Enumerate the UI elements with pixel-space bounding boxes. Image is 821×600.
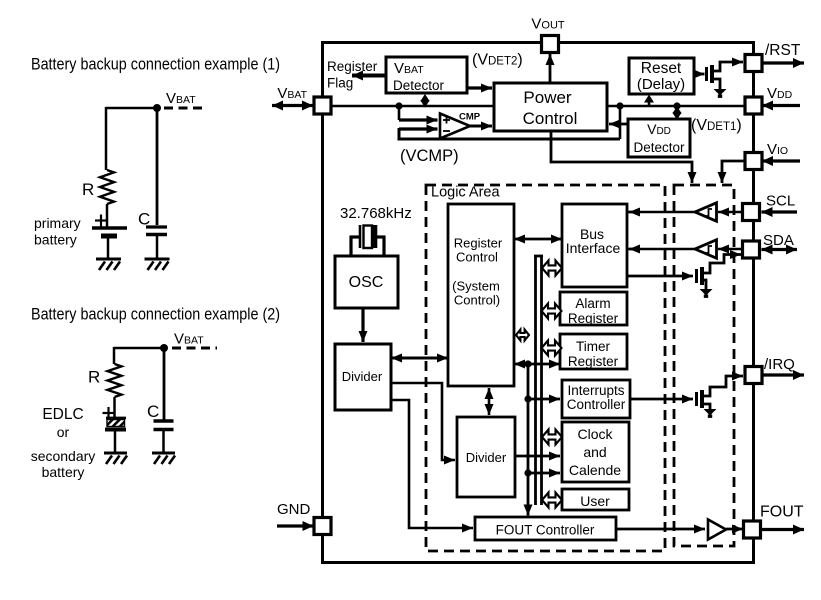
arrow RST external [762,61,804,64]
pin GND [314,518,331,535]
svg-text:Battery backup connection exam: Battery backup connection example (1) [31,55,280,74]
ground IRQ transistor [704,409,717,416]
battery negative plate example1 [101,234,117,239]
svg-text:or: or [57,424,70,440]
pin VIO [745,153,762,170]
svg-text:Detector: Detector [393,78,445,93]
wire to capacitor C example1 [156,108,159,225]
svg-text:SDA: SDA [763,232,794,249]
bus arrow to Alarm Register [542,304,562,319]
pin SDA [743,241,760,258]
svg-text:Detector: Detector [633,140,685,155]
bus arrow to Clock [542,430,562,445]
svg-text:R: R [82,180,94,199]
wire Divider 2 to Clock [515,455,560,458]
buffer SDA [695,240,717,258]
svg-text:Register: Register [568,311,619,326]
wire Register Control to Bus Interface double arrow [514,238,562,241]
wire VDD rail to VDD Detector double arrow [676,111,678,115]
arrow VBAT Detector to Register Flag [352,74,386,78]
wire Interrupts Controller to IRQ transistor [630,398,668,401]
ground battery example1 [96,259,121,270]
SDA input arrowhead into Bus Interface [629,248,640,251]
svg-text:Logic Area: Logic Area [431,185,500,201]
wire bus to Interrupts Controller [528,398,560,401]
svg-text:Calende: Calende [569,462,621,478]
wire Power Control internal supply to IO area [551,131,692,183]
bus line right [540,255,543,505]
bus line left [534,255,537,505]
svg-text:User: User [580,493,610,509]
block VBAT Detector [386,57,467,93]
wire SCL pin to buffer [718,211,743,214]
block Interrupts Controller [562,380,630,418]
junction VBAT rail [395,102,402,109]
block Alarm Register [560,292,627,325]
EDLC hatched plate example2 [106,417,126,420]
svg-text:Controller: Controller [567,397,626,412]
wire Bus Interface to SDA transistor gate [627,275,693,278]
block OSC [335,256,398,308]
wire Register Control to Timer Register double arrow [514,363,560,366]
junction VDD rail at detector [673,102,680,109]
svg-text:32.768kHz: 32.768kHz [340,205,412,222]
node VBAT example1 [153,104,161,112]
wire VBAT Detector to rail double arrow [424,99,426,103]
crystal X1 [350,225,386,257]
block Power Control [494,83,607,131]
svg-text:Control: Control [456,250,498,265]
wire OSC to Divider [361,308,364,342]
svg-text:Control): Control) [454,293,500,308]
svg-text:GND: GND [277,501,311,518]
wire SCL to Bus Interface [627,211,695,214]
svg-text:C: C [147,402,159,421]
wire transistor source to ground [712,79,720,89]
svg-text:/RST: /RST [765,42,801,59]
transistor RST output [707,65,713,83]
wire resistor to EDLC example2 [113,397,116,419]
svg-text:R: R [88,368,100,387]
bus arrow to User [542,493,562,508]
svg-text:CMP: CMP [459,112,481,123]
arrow VDD external [762,104,800,107]
resistor R example1 [100,170,114,204]
block Divider 1 [335,344,391,410]
wire VDD Detector to Power Control [609,123,628,126]
svg-text:and: and [583,444,606,460]
wire resistor to battery example1 [106,204,109,227]
wire SDA transistor source [702,280,706,289]
block Divider 2 [457,417,515,497]
pin VDD [745,97,762,114]
capacitor C bottom plate example1 [146,233,167,237]
arrow GND external [277,524,314,527]
svg-text:OSC: OSC [349,274,384,291]
junction control bus top [524,360,531,367]
svg-text:Alarm: Alarm [575,296,610,311]
svg-text:battery: battery [42,464,85,480]
wire bus to Clock lower [528,472,560,475]
wire Reset to transistor gate [694,73,705,76]
wire battery to ground example1 [107,237,110,259]
bus arrow Register Control small [516,330,529,341]
chip outline [323,43,754,563]
Logic Area label [430,187,503,198]
capacitor C bottom plate example2 [154,428,174,432]
svg-text:/IRQ: /IRQ [764,356,795,373]
capacitor C top plate example2 [154,419,174,423]
pin IRQ [745,367,762,384]
Logic Area dashed box [426,185,665,551]
capacitor C top plate example1 [146,225,167,228]
junction control bus clock [524,469,531,476]
svg-text:battery: battery [34,232,77,248]
svg-text:Battery backup connection exam: Battery backup connection example (2) [31,305,280,324]
wire Power Control to VOUT [549,54,552,83]
pin RST [745,55,762,72]
pin SCL [743,204,760,221]
wire Divider to Divider 2 [391,383,455,460]
IO cell dashed box [674,185,734,546]
wire junction to comparator plus [398,106,401,120]
svg-text:Divider: Divider [342,369,383,384]
wire EDLC to ground example2 [114,431,117,453]
block Reset Delay [629,58,694,94]
node VBAT example2 [160,344,168,352]
block Timer Register [560,334,627,369]
transistor IRQ output [697,390,703,408]
wire IRQ transistor to pin [702,376,743,396]
bus arrow to Bus Interface [542,261,562,276]
EDLC plus sign example2 [103,407,115,419]
bus top cap [534,255,543,258]
ground RST transistor [714,89,727,96]
wire VBAT Detector to Power Control [467,86,492,89]
pin VBAT [314,97,331,114]
battery plus sign example1 [95,215,107,227]
svg-text:SCL: SCL [766,193,795,210]
wire FOUT buffer to pin [726,528,743,531]
wire VDD rail to Reset block [648,100,651,106]
IRQ gate arrowhead [668,398,693,401]
svg-text:FOUT: FOUT [760,504,804,521]
svg-text:Register: Register [454,236,503,251]
wire Divider to FOUT Controller [391,400,473,528]
svg-text:Timer: Timer [576,339,610,354]
wire VDD sense run [398,138,621,141]
wire to resistor R example1 [105,107,108,170]
svg-text:Register: Register [568,354,619,369]
wire to resistor R example2 [113,347,116,364]
wire capacitor to ground example1 [156,236,159,259]
wire comparator plus input [399,118,438,121]
wire VIO to IO area [722,161,745,183]
wire minus input bend [398,128,401,141]
junction control bus interrupts [524,395,531,402]
svg-text:(Delay): (Delay) [637,76,685,93]
svg-text:primary: primary [34,215,81,231]
svg-text:(System: (System [452,279,500,294]
wire capacitor to ground example2 [162,431,165,453]
junction VDD rail left [616,102,623,109]
wire VDD rail [607,105,745,108]
svg-text:Control: Control [523,109,578,128]
resistor R example2 [108,364,122,397]
pin VOUT [542,36,559,53]
battery positive plate example1 [92,226,127,229]
wire FOUT Controller to buffer [616,528,705,531]
ground capacitor example2 [152,453,175,464]
svg-text:Power: Power [523,88,572,107]
svg-text:secondary: secondary [31,448,96,464]
wire SDA to Bus Interface [627,248,695,251]
transistor SDA output [697,267,703,285]
wire SDA transistor to pin [702,255,741,274]
arrow SDA external [762,248,798,251]
svg-text:Register: Register [327,59,378,74]
svg-text:FOUT Controller: FOUT Controller [496,523,595,538]
svg-text:Flag: Flag [327,76,353,91]
SCL input arrowhead into Bus Interface [629,211,640,214]
wire VBAT top example1 [106,107,157,110]
wire comparator output to Power Control [470,125,492,128]
block FOUT Controller [475,517,616,540]
svg-text:EDLC: EDLC [42,406,83,423]
wire to capacitor C example2 [163,348,166,420]
buffer FOUT [708,520,726,540]
ground capacitor example1 [145,259,170,270]
dashed VBAT stub example1 [164,107,205,110]
svg-text:Interrupts: Interrupts [567,383,624,398]
arrow FOUT external [761,528,804,531]
bus vertical to FOUT Controller [527,364,530,516]
arrow VBAT external [272,104,313,107]
wire SDA pin to buffer [718,248,743,251]
comparator CMP [440,114,470,139]
arrow VIO external [762,159,800,162]
wire comparator minus input [399,127,438,130]
svg-text:Divider: Divider [466,450,507,465]
ground SDA transistor [700,289,713,296]
block VDD Detector [628,119,690,157]
block User [562,489,629,510]
block Bus Interface [562,204,627,287]
EDLC bottom plate example2 [105,428,126,432]
svg-text:Interface: Interface [566,240,621,256]
wire Divider to Register Control double arrow [391,357,448,360]
pin FOUT [744,521,761,538]
svg-text:Clock: Clock [577,426,613,442]
svg-text:Reset: Reset [641,60,682,77]
dashed VBAT stub example2 [172,347,217,350]
block Clock and Calende [562,422,629,482]
wire VBAT top example2 [114,347,164,350]
wire VDD sense riser [619,106,622,139]
block Register Control [448,204,514,386]
wire VBAT rail [331,105,494,108]
bus arrow to Timer Register [542,341,562,356]
ground EDLC example2 [104,453,127,464]
wire IRQ transistor source [702,404,710,409]
arrow SCL external [762,210,798,213]
buffer SCL [695,203,717,221]
wire Register Control to Divider 2 double arrow [488,388,491,415]
arrow IRQ external [763,373,804,376]
svg-text:(VCMP): (VCMP) [400,147,459,165]
wire transistor to RST pin [712,62,743,71]
